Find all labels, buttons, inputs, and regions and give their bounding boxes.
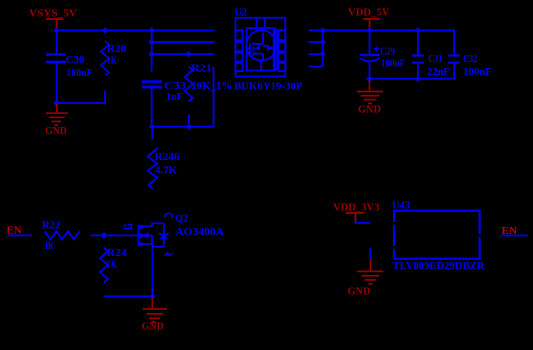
ground (VDD_3V3) [348,260,384,298]
capacitor C31 [412,31,450,78]
wire C30/R20 bottom [56,102,106,104]
junction C31 top [415,27,421,33]
mosfet U2 arrow and diode mark [254,46,272,51]
junction VSYS/C30 [53,27,59,33]
capacitor C30 [46,31,93,103]
junction R21 bottom [186,124,192,130]
junction wire3 left [149,51,155,57]
IC U5 (TLV809) [392,200,486,273]
svg-text:GND: GND [348,286,371,298]
junction wire2 tap [149,27,155,33]
svg-text:R20: R20 [107,43,127,55]
wire U2 right pin1 to VDD rail [309,30,455,32]
wire R22 to gate [91,235,138,237]
Q2 body arrow [142,232,149,238]
junction GND left [53,100,59,106]
resistor R246 [148,148,180,189]
mosfet U2 (BUK6Y19-30P package) [236,18,286,77]
svg-text:R24: R24 [107,247,128,259]
svg-text:100uF: 100uF [381,59,405,70]
Q2 body diode [159,233,168,239]
wire drain bus vertical [322,30,324,67]
svg-text:C30: C30 [66,54,85,66]
svg-text:4.7K: 4.7K [155,165,177,177]
resistor R20 [101,41,127,104]
power port VDD_3V3 [333,202,380,223]
svg-text:1K: 1K [107,55,117,67]
wire down to R246 [151,127,153,140]
svg-text:GND: GND [45,125,67,137]
wire U2 right pin2 [309,41,323,43]
svg-text:U43: U43 [392,200,410,212]
svg-text:22nF: 22nF [427,67,450,78]
junction R20 top [102,27,108,33]
svg-text:1K: 1K [107,259,117,271]
svg-text:R22: R22 [42,219,61,231]
resistor R24 [100,247,127,283]
svg-text:VDD_5V: VDD_5V [348,7,390,19]
junction C31 bottom [415,76,421,82]
Q2 pin 3 glyph [165,253,173,256]
wire vertical tap down to C33 [151,31,153,72]
svg-text:GND: GND [358,104,381,116]
wire U2 right pin4 [309,66,323,68]
Q2 pin 2 glyph [165,213,172,219]
port EN (right) [502,225,529,237]
junction drain C [320,51,326,57]
wire 3 (U2 pin3) [152,53,215,55]
svg-text:R21: R21 [191,63,212,75]
svg-text:C29: C29 [380,47,395,58]
svg-text:Q2: Q2 [175,213,188,225]
svg-text:C32: C32 [463,54,477,65]
junction C33 bottom [149,124,155,130]
svg-text:10K_1%: 10K_1% [191,80,233,92]
wire 2 (U2 pin2) [152,41,215,43]
transistor Q2 (AO3400A) [139,223,164,247]
junction R21 top [186,51,192,57]
svg-text:C31: C31 [428,54,442,65]
junction wire2 [149,39,155,45]
svg-text:100nF: 100nF [463,67,492,78]
resistor R22 [42,219,80,252]
svg-text:BUK6Y19-30P: BUK6Y19-30P [234,81,303,93]
wire U2 right pin3 [309,53,323,55]
junction R24 top [101,232,107,238]
svg-text:R246: R246 [155,151,181,163]
svg-text:100uF: 100uF [67,67,93,79]
capacitor C32 [448,30,491,80]
ground (under C29) [357,80,383,116]
power port VDD_5V [348,7,390,30]
wire U2 gate vertical [213,67,215,127]
svg-text:1K: 1K [45,240,54,252]
wire Q2 source down [152,247,154,297]
power port VSYS_5V [29,8,77,30]
svg-text:VDD_3V3: VDD_3V3 [333,202,380,214]
svg-text:AO3400A: AO3400A [175,226,224,238]
svg-text:TLV809ED29DBZR: TLV809ED29DBZR [393,260,486,272]
junction VDD/C29 [366,27,372,33]
ground (under Q2) [142,298,167,333]
wire bottom (gate net) [152,126,214,128]
wire VSYS rail [56,30,215,32]
junction GND C29 [366,76,372,82]
resistor R21 [185,63,233,127]
junction source/GND [149,293,155,299]
wire R24 to source [104,295,153,297]
ground (left) [45,104,68,137]
junction drain B [320,39,326,45]
port EN (left) [7,225,32,237]
wire VDD_3V3 stub [355,222,371,224]
capacitor C33 [142,80,187,127]
Q2 pin 1 glyph [123,225,132,229]
capacitor C29 (polarized) [360,31,405,78]
svg-text:1nF: 1nF [166,91,183,103]
svg-text:VSYS_5V: VSYS_5V [29,8,77,20]
junction drain A [320,27,326,33]
svg-text:GND: GND [142,321,164,333]
wire VDD bottom rail [369,78,456,80]
wire to GND (upper) [370,248,372,260]
svg-text:U2: U2 [235,7,248,19]
